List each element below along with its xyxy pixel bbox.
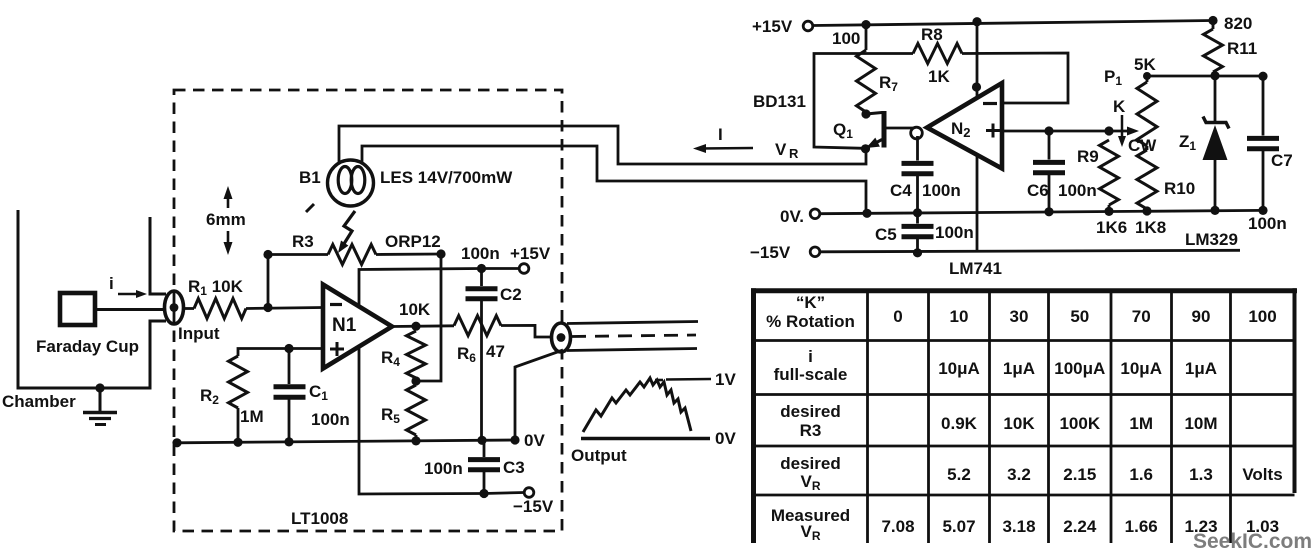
- wire N2 V+ / V- supply: [976, 22, 979, 253]
- table row 4 (desired VR): [780, 454, 1282, 493]
- svg-text:K: K: [1113, 97, 1126, 116]
- svg-text:C3: C3: [503, 458, 525, 477]
- junction R3 left: [263, 250, 272, 259]
- svg-text:0.9K: 0.9K: [941, 414, 978, 433]
- wire lamp right lead to 0V line: [362, 146, 866, 211]
- svg-text:0V: 0V: [715, 429, 736, 448]
- transistor Q1 (BD131): [866, 111, 913, 148]
- label Faraday Cup: [36, 337, 139, 356]
- capacitor C4: [902, 136, 934, 213]
- junction wiper / R9 top: [1104, 126, 1113, 135]
- junction Q1 emitter: [861, 144, 870, 153]
- svg-text:3.18: 3.18: [1002, 517, 1035, 536]
- chamber wall (vacuum chamber outline): [18, 210, 166, 388]
- junction R2 bottom: [233, 438, 242, 447]
- -15V terminal (right): [750, 243, 820, 262]
- junction C7 bottom (0V rail end): [1258, 206, 1267, 215]
- table row 3 (desired R3): [780, 402, 1217, 440]
- svg-text:100n: 100n: [424, 459, 463, 478]
- svg-text:C5: C5: [875, 225, 897, 244]
- feedback wire R3 to R4/R5 junction: [416, 254, 441, 381]
- label 1K8: [1135, 218, 1166, 237]
- junction N1 output / R4 top: [411, 322, 420, 331]
- label Q1: [833, 120, 853, 141]
- label Output: [571, 446, 627, 465]
- label R11: [1227, 39, 1257, 58]
- resistor R5: [381, 385, 426, 441]
- label 1M: [240, 407, 264, 426]
- junction C4 bottom on 0V: [913, 208, 922, 217]
- +15V terminal (right): [752, 17, 813, 36]
- table grid: [751, 288, 1297, 543]
- junction C1 bottom: [284, 437, 293, 446]
- svg-text:−15V: −15V: [513, 497, 554, 516]
- svg-text:5.07: 5.07: [942, 517, 975, 536]
- svg-text:5K: 5K: [1134, 55, 1156, 74]
- svg-text:47: 47: [486, 342, 505, 361]
- svg-text:−15V: −15V: [750, 243, 791, 262]
- -15V rail wire (right): [820, 250, 1240, 252]
- svg-text:70: 70: [1132, 307, 1151, 326]
- junction rail left end: [172, 438, 181, 447]
- wire lamp left lead to VR line: [339, 126, 866, 164]
- capacitor C5: [902, 213, 934, 253]
- light arrow (lamp to LDR): [306, 204, 355, 253]
- label 100n (C2): [461, 244, 500, 263]
- junction R4/R5: [411, 376, 420, 385]
- label R3: [292, 232, 314, 251]
- svg-text:1V: 1V: [715, 370, 736, 389]
- junction R11 top: [1208, 16, 1217, 25]
- resistor R10 1K8: [1137, 146, 1157, 211]
- svg-text:“K”: “K”: [796, 293, 825, 312]
- label ORP12: [385, 232, 441, 251]
- label Input: [178, 324, 220, 343]
- 0V terminal (right): [780, 207, 820, 226]
- output waveform sketch: [583, 378, 691, 432]
- -15V terminal (N1): [513, 488, 554, 516]
- lamp B1 (LES 14V/700mW): [328, 160, 374, 206]
- svg-text:1.66: 1.66: [1125, 517, 1158, 536]
- svg-text:Faraday Cup: Faraday Cup: [36, 337, 139, 356]
- svg-text:0: 0: [893, 307, 902, 326]
- wire R8 left loop to Q1 emitter: [814, 54, 913, 149]
- svg-text:100: 100: [1248, 307, 1276, 326]
- feedback wire R8 to N2 - input: [962, 53, 1068, 103]
- LT1008 guard box (dashed): [174, 90, 562, 531]
- svg-text:i: i: [109, 274, 114, 293]
- junction C1 top: [284, 344, 293, 353]
- wire cup to feedthrough: [95, 308, 165, 311]
- svg-text:0V: 0V: [524, 431, 545, 450]
- svg-text:100n: 100n: [935, 223, 974, 242]
- wire input node up to R3: [267, 255, 270, 308]
- label C4: [890, 181, 912, 200]
- junction lamp return on 0V: [862, 209, 871, 218]
- svg-text:N1: N1: [332, 315, 357, 336]
- wire R6 to output feedthrough: [501, 325, 553, 337]
- label 100n (C5): [935, 223, 974, 242]
- svg-text:R1 10K: R1 10K: [188, 277, 244, 298]
- svg-text:1.6: 1.6: [1129, 465, 1153, 484]
- resistor R4: [381, 331, 426, 378]
- label R10: [1164, 179, 1195, 198]
- waveform 1V level: [655, 370, 736, 389]
- svg-text:1K8: 1K8: [1135, 218, 1166, 237]
- capacitor C7: [1247, 76, 1279, 210]
- label LM329: [1185, 230, 1238, 249]
- svg-text:10K: 10K: [399, 300, 431, 319]
- svg-text:1M: 1M: [1129, 414, 1153, 433]
- svg-text:R11: R11: [1227, 39, 1257, 58]
- svg-text:Chamber: Chamber: [2, 392, 76, 411]
- svg-text:R8: R8: [921, 25, 943, 44]
- svg-text:100n: 100n: [922, 181, 961, 200]
- svg-text:R3: R3: [292, 232, 314, 251]
- svg-text:LT1008: LT1008: [291, 509, 348, 528]
- +15V rail wire: [813, 21, 1213, 26]
- rotation annotation K: [1113, 97, 1126, 147]
- Faraday cup electrode: [60, 293, 95, 325]
- junction R10 bottom on 0V: [1142, 206, 1151, 215]
- annotation 6mm spacing: [206, 186, 246, 255]
- output feedthrough node: [552, 323, 571, 352]
- junction C2 bottom on 0V rail: [477, 436, 486, 445]
- junction Z1 bottom on 0V: [1210, 206, 1219, 215]
- svg-text:50: 50: [1070, 307, 1089, 326]
- label R2: [200, 386, 219, 407]
- svg-text:LM329: LM329: [1185, 230, 1238, 249]
- svg-text:Input: Input: [178, 324, 220, 343]
- svg-text:R10: R10: [1164, 179, 1195, 198]
- label LT1008: [291, 509, 348, 528]
- svg-text:100μA: 100μA: [1054, 359, 1105, 378]
- svg-text:I: I: [718, 125, 723, 144]
- label C6: [1027, 181, 1049, 200]
- resistor R3 (ORP12 LDR): [268, 245, 441, 265]
- label R9: [1077, 147, 1099, 166]
- label CW: [1128, 136, 1157, 155]
- svg-text:10M: 10M: [1184, 414, 1217, 433]
- junction R7 top: [861, 20, 870, 29]
- wiper arrow into P1: [1109, 127, 1139, 136]
- label 100n (C6): [1058, 181, 1097, 200]
- junction R7 bottom / Q1 collector: [861, 109, 870, 118]
- resistor R1 10K: [188, 277, 246, 319]
- junction input node: [263, 303, 272, 312]
- svg-text:desired: desired: [780, 454, 840, 473]
- capacitor C2: [466, 272, 522, 441]
- waveform 0V baseline: [581, 429, 736, 448]
- junction R9 bottom on 0V: [1104, 207, 1113, 216]
- op-amp N1 (LT1008): [323, 285, 392, 369]
- resistor R2 1M: [229, 356, 248, 442]
- capacitor C6: [1033, 131, 1065, 212]
- svg-text:3.2: 3.2: [1007, 465, 1031, 484]
- junction C2 top: [477, 264, 486, 273]
- svg-text:C6: C6: [1027, 181, 1049, 200]
- label P1: [1104, 67, 1122, 88]
- svg-text:2.24: 2.24: [1063, 517, 1097, 536]
- svg-text:1M: 1M: [240, 407, 264, 426]
- svg-text:100n: 100n: [311, 410, 350, 429]
- svg-text:+15V: +15V: [510, 244, 551, 263]
- label 100n (C1): [311, 410, 350, 429]
- label 100n (C3): [424, 459, 463, 478]
- current arrow I: [693, 125, 753, 153]
- zener diode Z1 (LM329): [1203, 76, 1230, 210]
- svg-text:10μA: 10μA: [938, 359, 980, 378]
- current annotation i with arrow: [109, 274, 147, 298]
- resistor R7: [857, 25, 876, 114]
- svg-text:100n: 100n: [1058, 181, 1097, 200]
- junction R5 bottom: [411, 436, 420, 445]
- capacitor C1: [274, 349, 306, 442]
- junction C6 bottom on 0V: [1044, 207, 1053, 216]
- svg-text:R9: R9: [1077, 147, 1099, 166]
- label R7: [879, 73, 898, 94]
- junction N2 V+ pin: [972, 82, 981, 91]
- reference node wire (P1 top / Z1 / C7): [1147, 75, 1263, 78]
- svg-text:1μA: 1μA: [1185, 359, 1217, 378]
- resistor R6 47: [454, 316, 505, 365]
- svg-text:C2: C2: [500, 285, 522, 304]
- junction C6 top: [1044, 126, 1053, 135]
- label Chamber: [2, 392, 76, 411]
- svg-text:B1: B1: [299, 168, 321, 187]
- label 10K (R4): [399, 300, 431, 319]
- op-amp N2 (LM741): [927, 83, 1002, 169]
- svg-text:LM741: LM741: [949, 259, 1002, 278]
- svg-text:full-scale: full-scale: [774, 365, 848, 384]
- label C7: [1271, 151, 1293, 170]
- +15V terminal (N1): [510, 244, 551, 273]
- svg-text:desired: desired: [780, 402, 840, 421]
- svg-text:7.08: 7.08: [881, 517, 914, 536]
- svg-text:100n: 100n: [461, 244, 500, 263]
- junction C7 top: [1258, 72, 1267, 81]
- resistor R9 1K6: [1100, 140, 1119, 211]
- svg-text:6mm: 6mm: [206, 210, 246, 229]
- svg-text:10μA: 10μA: [1120, 359, 1162, 378]
- svg-text:C4: C4: [890, 181, 912, 200]
- svg-text:2.15: 2.15: [1063, 465, 1096, 484]
- label LES 14V/700mW: [380, 168, 513, 187]
- label 1K (R8): [928, 67, 950, 86]
- junction C5 bottom on -15V: [913, 248, 922, 257]
- svg-text:90: 90: [1192, 307, 1211, 326]
- resistor R8 1K: [913, 44, 962, 64]
- svg-text:1K6: 1K6: [1096, 218, 1127, 237]
- watermark SeekIC.com: [1193, 530, 1312, 553]
- label 100n (C7): [1248, 214, 1287, 233]
- junction P1 top: [1143, 72, 1151, 80]
- wire N1 output: [392, 324, 454, 328]
- label C5: [875, 225, 897, 244]
- wire N1 + input to R2/C1: [238, 349, 323, 357]
- label BD131: [753, 92, 806, 111]
- svg-text:R3: R3: [800, 421, 822, 440]
- output pigtail loop at N2 apex: [911, 127, 923, 139]
- table row 2 (i full-scale): [774, 347, 1217, 384]
- svg-text:5.2: 5.2: [947, 465, 971, 484]
- junction N2 V+ tap: [972, 17, 981, 26]
- coax cable (output): [567, 322, 698, 351]
- svg-text:C7: C7: [1271, 151, 1293, 170]
- svg-text:1K: 1K: [928, 67, 950, 86]
- input feedthrough node: [165, 291, 184, 324]
- svg-text:LES 14V/700mW: LES 14V/700mW: [380, 168, 513, 187]
- svg-text:1μA: 1μA: [1003, 359, 1035, 378]
- svg-text:0V.: 0V.: [780, 207, 804, 226]
- svg-text:100K: 100K: [1059, 414, 1100, 433]
- svg-text:% Rotation: % Rotation: [766, 312, 855, 331]
- 0V rail (inside LT1008 box): [177, 440, 515, 443]
- label 0V (inside): [524, 431, 545, 450]
- wire +15V to N1 V+ and down to -15V (supply line): [359, 269, 519, 495]
- svg-text:10K: 10K: [1003, 414, 1035, 433]
- wire input to R1: [183, 307, 194, 310]
- wire R1 to N1 inverting input: [246, 308, 323, 309]
- label LM741: [949, 259, 1002, 278]
- svg-text:100: 100: [832, 29, 860, 48]
- svg-text:V: V: [775, 140, 787, 159]
- resistor R11 820: [1204, 21, 1223, 76]
- svg-text:R: R: [789, 146, 799, 161]
- label 100n (C4): [922, 181, 961, 200]
- label Z1: [1179, 132, 1196, 153]
- table row 1 (% rotation): [766, 293, 1277, 331]
- svg-text:100n: 100n: [1248, 214, 1287, 233]
- label VR: [775, 140, 799, 161]
- 0V rail wire (right): [820, 210, 1263, 213]
- label 5K: [1134, 55, 1156, 74]
- junction shield/0V: [510, 435, 519, 444]
- capacitor C3: [468, 441, 500, 494]
- label 100 (R7): [832, 29, 860, 48]
- table row 5 (measured VR): [771, 506, 1279, 543]
- wire N2 + input to wiper: [1002, 130, 1110, 133]
- svg-text:820: 820: [1224, 14, 1252, 33]
- junction C3 bottom: [479, 489, 488, 498]
- label B1: [299, 168, 321, 187]
- svg-text:i: i: [808, 347, 813, 366]
- label C3: [503, 458, 525, 477]
- svg-text:30: 30: [1010, 307, 1029, 326]
- wire to -15V terminal: [484, 493, 524, 494]
- svg-text:Output: Output: [571, 446, 627, 465]
- label 1K6: [1096, 218, 1127, 237]
- junction Z1 top: [1210, 71, 1219, 80]
- junction R3 right: [436, 249, 445, 258]
- wire coax shield to 0V: [515, 350, 563, 440]
- svg-text:ORP12: ORP12: [385, 232, 441, 251]
- svg-text:10: 10: [950, 307, 969, 326]
- label C1: [309, 382, 328, 403]
- potentiometer P1 5K element: [1137, 76, 1157, 146]
- ground (chamber earth): [83, 383, 117, 424]
- label 820: [1224, 14, 1252, 33]
- svg-text:SeekIC.com: SeekIC.com: [1193, 530, 1312, 553]
- label R8: [921, 25, 943, 44]
- svg-text:Volts: Volts: [1242, 465, 1282, 484]
- svg-text:+15V: +15V: [752, 17, 793, 36]
- svg-text:1.3: 1.3: [1189, 465, 1213, 484]
- svg-text:BD131: BD131: [753, 92, 806, 111]
